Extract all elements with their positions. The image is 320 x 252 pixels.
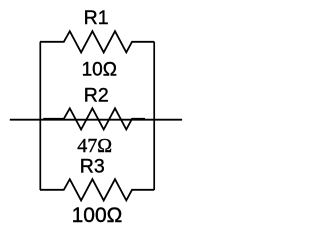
svg-text:100Ω: 100Ω	[72, 204, 123, 227]
svg-text:R2: R2	[84, 84, 109, 106]
svg-text:R1: R1	[84, 7, 109, 29]
svg-text:10Ω: 10Ω	[82, 60, 117, 81]
svg-text:47Ω: 47Ω	[77, 135, 112, 157]
svg-text:R3: R3	[80, 156, 105, 178]
